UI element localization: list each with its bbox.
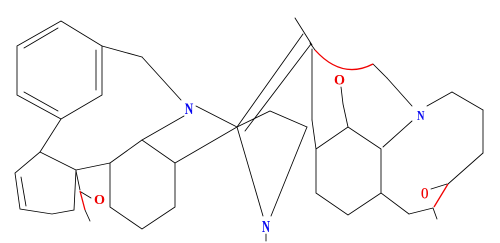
right vertical [311,49,313,120]
bond vertex to O1 up-left [76,171,80,190]
svg-text:N: N [262,217,270,236]
bond ring D to N3 [383,121,412,147]
ring B hexagon left-bottom [110,140,175,229]
ring A aromatic hexagon top-left [17,21,102,119]
svg-text:O: O [421,186,429,203]
svg-text:O: O [334,73,345,89]
svg-text:N: N [417,109,425,124]
bond ring D to bottom chain [381,193,409,214]
red bond near O3 [434,184,448,207]
arc black part left [310,43,315,50]
bond N1 down to ring B [142,116,184,140]
svg-text:O: O [94,193,105,208]
bond right down to red [448,153,483,184]
cage long diagonal 2 [245,44,311,131]
ring C double bond [21,177,26,206]
bond O3 to right vertex [431,184,447,189]
bond arc end down [373,64,387,78]
cage top stub [295,18,312,45]
bond to N3 [387,78,412,106]
bond ring B to cage [175,127,237,163]
svg-text:N: N [185,101,194,118]
bond O3 stub below [433,208,437,219]
bond A to chain [102,46,142,57]
bond N1 to cage [196,106,237,127]
red O2 arc [315,50,373,70]
bond chain to N1 [142,57,181,100]
bond vertical to ring D [312,120,316,149]
bond ring C to ring B [76,163,110,170]
bond N3 up right [427,92,452,106]
cage upper bridge [237,111,307,127]
bottom chain to O3 vertex [409,208,433,214]
bond O2 down to ring D [341,87,348,127]
ring D hexagon right [316,127,381,215]
red bond near O1 [80,191,85,210]
bond right chain [452,92,483,110]
bond ring C to ring A [40,119,61,152]
right vertical 2 [482,110,484,153]
N2 stub down [265,234,267,241]
ring C cyclopentene far left [15,152,76,214]
cage V right arm to N2 [271,127,307,216]
cage V left arm to N2 [237,127,263,216]
bond below O1 [85,210,90,221]
bond into O1 [81,192,91,198]
cage long diagonal 1 [237,34,303,127]
ring A inner double bonds [24,28,96,111]
